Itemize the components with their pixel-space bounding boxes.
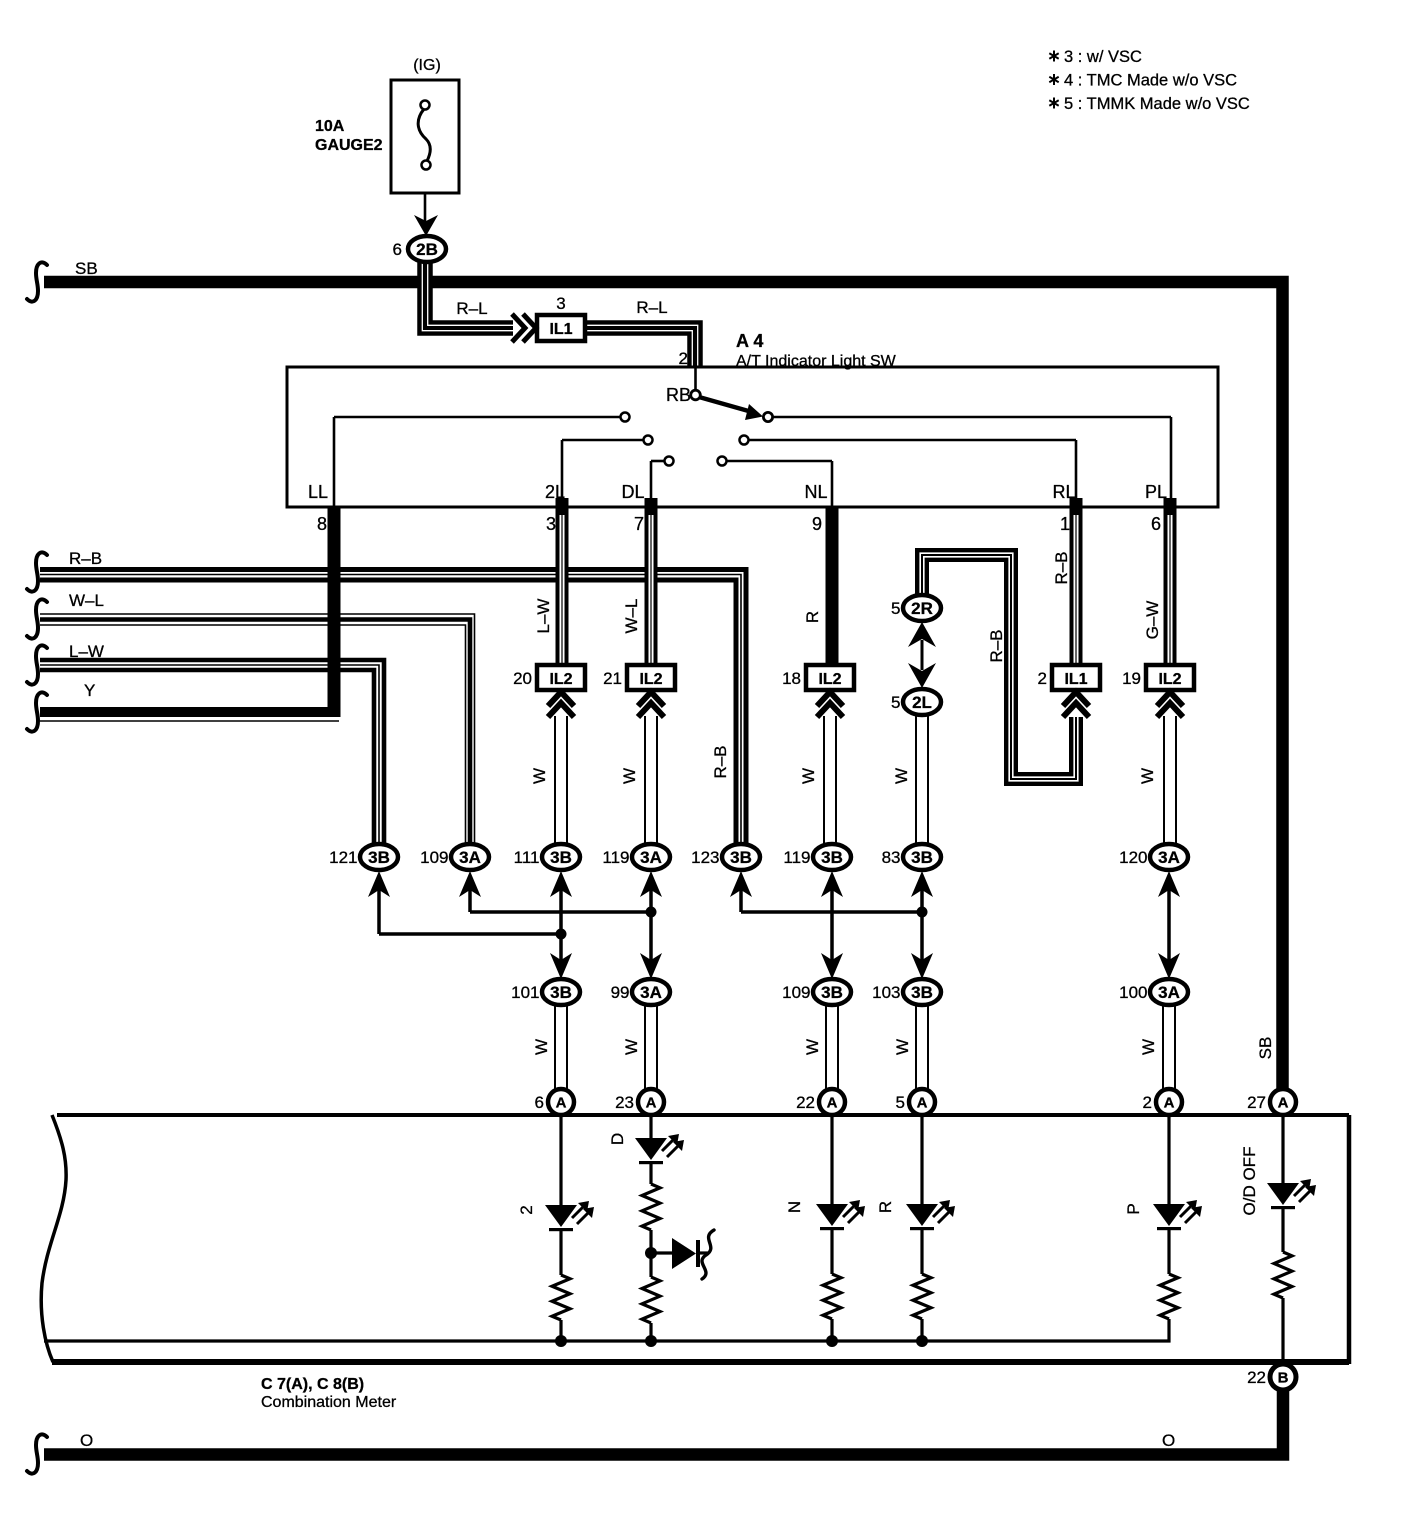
svg-text:R–B: R–B xyxy=(1052,551,1071,584)
svg-text:99: 99 xyxy=(611,983,630,1002)
svg-text:W: W xyxy=(532,1039,551,1055)
svg-text:R–B: R–B xyxy=(69,549,102,568)
svg-text:NL: NL xyxy=(804,482,827,502)
svg-text:W: W xyxy=(620,768,639,784)
svg-text:IL1: IL1 xyxy=(1064,671,1087,688)
svg-text:W–L: W–L xyxy=(69,591,104,610)
svg-text:L–W: L–W xyxy=(69,642,104,661)
svg-text:2: 2 xyxy=(1038,669,1047,688)
svg-text:3B: 3B xyxy=(911,983,933,1002)
svg-text:A 4: A 4 xyxy=(736,331,763,351)
svg-text:3B: 3B xyxy=(911,848,933,867)
svg-text:19: 19 xyxy=(1122,669,1141,688)
svg-text:IL2: IL2 xyxy=(549,671,572,688)
svg-text:PL: PL xyxy=(1145,482,1167,502)
svg-text:3B: 3B xyxy=(821,983,843,1002)
svg-text:DL: DL xyxy=(621,482,644,502)
svg-text:3B: 3B xyxy=(368,848,390,867)
svg-text:R: R xyxy=(876,1201,895,1213)
svg-text:100: 100 xyxy=(1119,983,1147,1002)
svg-text:P: P xyxy=(1124,1203,1143,1214)
svg-text:119: 119 xyxy=(602,848,629,867)
svg-text:5 : TMMK Made w/o VSC: 5 : TMMK Made w/o VSC xyxy=(1064,95,1250,113)
svg-text:2: 2 xyxy=(517,1205,536,1214)
svg-text:3A: 3A xyxy=(1158,848,1180,867)
svg-text:4 : TMC Made w/o VSC: 4 : TMC Made w/o VSC xyxy=(1064,72,1237,90)
svg-text:B: B xyxy=(1278,1370,1289,1387)
svg-text:D: D xyxy=(608,1133,627,1145)
svg-text:A: A xyxy=(1164,1095,1175,1112)
svg-text:109: 109 xyxy=(420,848,448,867)
svg-text:R–B: R–B xyxy=(711,745,730,778)
svg-text:W: W xyxy=(803,1039,822,1055)
svg-text:10A: 10A xyxy=(315,118,345,135)
svg-text:2B: 2B xyxy=(416,240,438,259)
svg-text:A: A xyxy=(646,1095,657,1112)
svg-text:A: A xyxy=(917,1095,928,1112)
svg-text:23: 23 xyxy=(615,1093,634,1112)
svg-text:IL1: IL1 xyxy=(549,321,572,338)
svg-text:3B: 3B xyxy=(821,848,843,867)
svg-text:W: W xyxy=(1139,1039,1158,1055)
svg-text:W: W xyxy=(622,1039,641,1055)
svg-text:IL2: IL2 xyxy=(639,671,662,688)
svg-text:Combination Meter: Combination Meter xyxy=(261,1394,397,1411)
svg-text:IL2: IL2 xyxy=(1158,671,1181,688)
svg-text:L–W: L–W xyxy=(534,599,553,634)
svg-text:5: 5 xyxy=(896,1093,905,1112)
svg-text:3A: 3A xyxy=(459,848,481,867)
svg-text:W–L: W–L xyxy=(622,599,641,634)
svg-text:119: 119 xyxy=(783,848,810,867)
svg-text:2R: 2R xyxy=(911,599,933,618)
svg-text:83: 83 xyxy=(882,848,901,867)
svg-text:O: O xyxy=(1162,1431,1175,1450)
svg-text:3A: 3A xyxy=(640,848,662,867)
svg-text:SB: SB xyxy=(1256,1037,1275,1060)
svg-text:9: 9 xyxy=(812,514,822,534)
svg-text:2L: 2L xyxy=(545,482,565,502)
svg-text:A: A xyxy=(1278,1095,1289,1112)
svg-text:A: A xyxy=(556,1095,567,1112)
svg-text:111: 111 xyxy=(514,848,540,867)
svg-text:Y: Y xyxy=(84,681,95,700)
svg-text:18: 18 xyxy=(782,669,801,688)
svg-text:3B: 3B xyxy=(730,848,752,867)
svg-text:RL: RL xyxy=(1052,482,1075,502)
svg-text:3B: 3B xyxy=(550,983,572,1002)
svg-text:7: 7 xyxy=(634,514,644,534)
svg-text:5: 5 xyxy=(891,693,900,712)
svg-text:3: 3 xyxy=(556,294,565,313)
svg-text:103: 103 xyxy=(872,983,900,1002)
svg-text:LL: LL xyxy=(308,482,328,502)
svg-text:R–L: R–L xyxy=(456,299,487,318)
svg-text:22: 22 xyxy=(1247,1368,1266,1387)
svg-text:GAUGE2: GAUGE2 xyxy=(315,137,383,154)
svg-text:20: 20 xyxy=(513,669,532,688)
svg-text:2: 2 xyxy=(679,349,688,368)
svg-text:8: 8 xyxy=(317,514,327,534)
svg-text:121: 121 xyxy=(329,848,357,867)
svg-text:W: W xyxy=(530,768,549,784)
svg-text:1: 1 xyxy=(1060,514,1070,534)
svg-text:N: N xyxy=(785,1201,804,1213)
svg-text:IL2: IL2 xyxy=(818,671,841,688)
svg-text:R–L: R–L xyxy=(636,298,667,317)
svg-text:3: 3 xyxy=(546,514,556,534)
svg-text:6: 6 xyxy=(535,1093,544,1112)
svg-text:2: 2 xyxy=(1143,1093,1152,1112)
svg-text:R: R xyxy=(803,611,822,623)
svg-text:27: 27 xyxy=(1247,1093,1266,1112)
svg-text:109: 109 xyxy=(782,983,810,1002)
svg-text:RB: RB xyxy=(666,385,691,405)
svg-text:5: 5 xyxy=(891,599,900,618)
svg-text:W: W xyxy=(799,768,818,784)
svg-text:6: 6 xyxy=(1151,514,1161,534)
svg-text:O/D OFF: O/D OFF xyxy=(1240,1147,1259,1216)
svg-text:3 : w/ VSC: 3 : w/ VSC xyxy=(1064,48,1142,66)
svg-text:22: 22 xyxy=(796,1093,815,1112)
svg-text:W: W xyxy=(892,768,911,784)
svg-text:101: 101 xyxy=(511,983,539,1002)
svg-text:W: W xyxy=(1138,768,1157,784)
svg-text:120: 120 xyxy=(1119,848,1147,867)
svg-text:6: 6 xyxy=(393,240,402,259)
svg-text:O: O xyxy=(80,1431,93,1450)
svg-text:(IG): (IG) xyxy=(413,57,441,74)
svg-text:R–B: R–B xyxy=(987,629,1006,662)
svg-text:3A: 3A xyxy=(1158,983,1180,1002)
svg-text:123: 123 xyxy=(691,848,719,867)
svg-text:SB: SB xyxy=(75,259,98,278)
svg-text:3B: 3B xyxy=(550,848,572,867)
svg-text:21: 21 xyxy=(603,669,622,688)
svg-text:2L: 2L xyxy=(912,693,932,712)
svg-text:G–W: G–W xyxy=(1143,601,1162,640)
svg-text:A: A xyxy=(827,1095,838,1112)
svg-text:W: W xyxy=(893,1039,912,1055)
svg-text:C 7(A), C 8(B): C 7(A), C 8(B) xyxy=(261,1376,364,1393)
svg-text:3A: 3A xyxy=(640,983,662,1002)
